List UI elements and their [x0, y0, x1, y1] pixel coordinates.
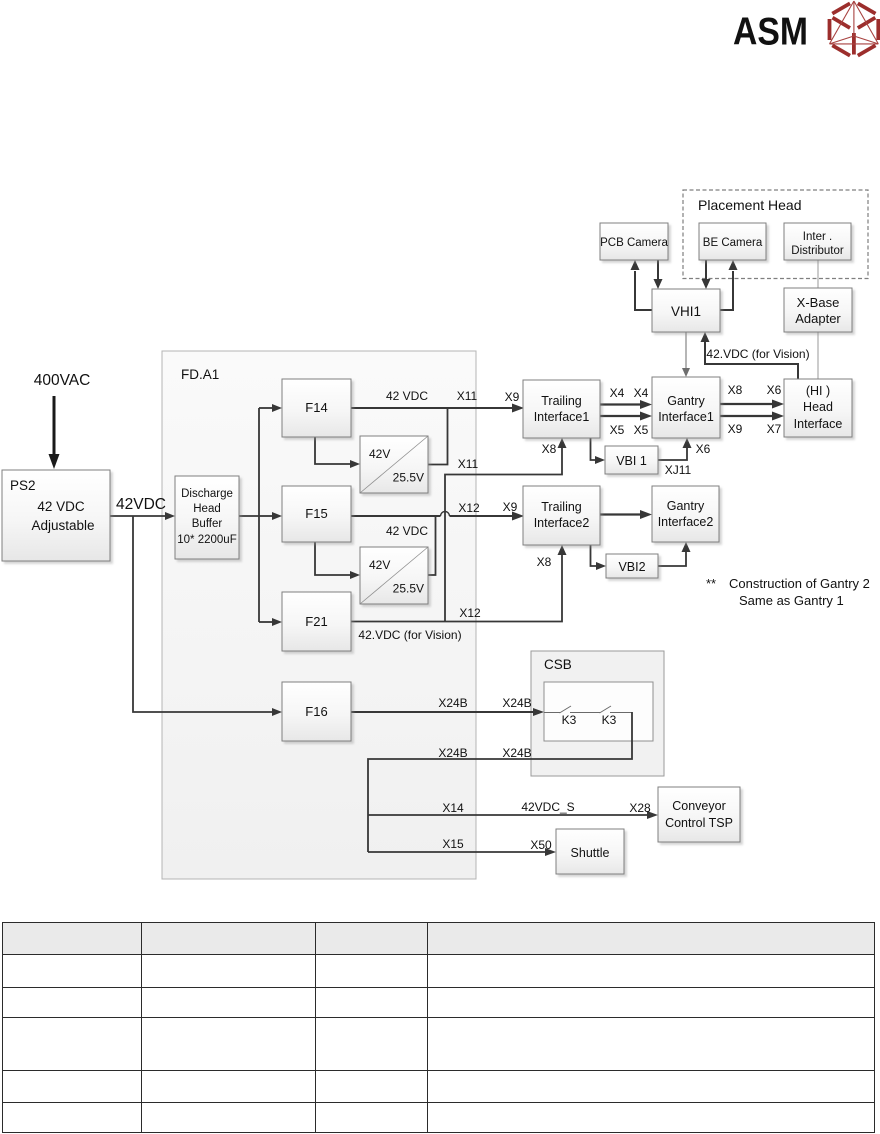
svg-text:25.5V: 25.5V [393, 582, 424, 596]
svg-text:XJ11: XJ11 [665, 463, 692, 477]
block fuse F15 [282, 486, 351, 542]
svg-text:42 VDC: 42 VDC [386, 524, 428, 538]
wire VHI1 to PCB Camera (up) [631, 260, 653, 310]
svg-text:X28: X28 [629, 801, 651, 815]
svg-text:X4: X4 [610, 386, 625, 400]
svg-text:X4: X4 [634, 386, 649, 400]
block BE Camera [699, 223, 766, 260]
svg-text:X6: X6 [767, 383, 782, 397]
label X8 into Trailing1 bottom [542, 442, 557, 456]
svg-text:Distributor: Distributor [791, 245, 844, 257]
label X5 pair [610, 423, 649, 437]
label K3 first relay [562, 713, 577, 727]
block Trailing Interface1 [523, 380, 600, 438]
svg-text:Interface2: Interface2 [658, 515, 714, 529]
wire X15 to Shuttle X50 [368, 848, 556, 856]
svg-text:X7: X7 [767, 422, 782, 436]
wire X14 42VDC_S to Conveyor Control TSP [368, 811, 658, 819]
label X24B on return right [502, 746, 531, 760]
labels layer [34, 347, 870, 852]
svg-text:ASM: ASM [733, 9, 808, 53]
svg-text:X11: X11 [458, 457, 479, 471]
svg-text:X6: X6 [696, 442, 711, 456]
ASM logo hexagon [830, 1, 879, 56]
wire spine to F21 [259, 618, 282, 626]
wire buffer to fuse spine [239, 408, 259, 622]
wire Inter. Distributor to X-Base Adapter (thin) [817, 260, 819, 288]
svg-text:Trailing: Trailing [541, 394, 582, 408]
svg-text:X8: X8 [537, 555, 552, 569]
label 42VDC at PS2 output [116, 496, 166, 513]
svg-text:Construction of Gantry 2: Construction of Gantry 2 [729, 576, 870, 591]
wire VHI1 to BE Camera (up) [720, 260, 738, 310]
block Inter. Distributor [784, 223, 851, 260]
label X6 into Gantry1 bottom [696, 442, 711, 456]
svg-text:X24B: X24B [438, 696, 467, 710]
wire F14 42VDC output to Trailing Interface1 X9 [351, 404, 524, 413]
svg-text:Placement Head: Placement Head [698, 197, 802, 213]
svg-text:K3: K3 [562, 713, 577, 727]
svg-text:X12: X12 [459, 606, 481, 620]
wire Trailing1 to Gantry1 X5 [600, 412, 652, 421]
wire converter1 output tie to 42VDC line [428, 408, 448, 465]
svg-text:Head: Head [803, 400, 833, 414]
boxes layer [2, 223, 852, 874]
label K3 second relay [602, 713, 617, 727]
wire CSB return X24B loop to X14/X15 feed [368, 712, 632, 852]
svg-text:F21: F21 [305, 614, 327, 629]
wire VBI 1 to Gantry1 X6 via XJ11 [658, 438, 692, 460]
label X6 into Head Interface [767, 383, 782, 397]
block DC converter 42V/25.5V no.1 [360, 436, 428, 493]
svg-text:X24B: X24B [502, 746, 531, 760]
wire 42.VDC for Vision from Head Interface to VHI1 [701, 332, 799, 379]
wire 400VAC drop into PS2 [49, 396, 60, 469]
wires layer [49, 260, 819, 856]
FD.A1 enclosure [162, 351, 476, 879]
svg-text:X15: X15 [442, 837, 464, 851]
svg-text:VBI2: VBI2 [618, 560, 645, 574]
svg-text:42V: 42V [369, 558, 390, 572]
svg-text:X8: X8 [728, 383, 743, 397]
wire Gantry1 to Head Interface X9-X7 [720, 412, 784, 421]
block (HI) Head Interface [784, 379, 852, 437]
label X4 pair [610, 386, 649, 400]
wire K3 relay contact line [544, 706, 632, 713]
svg-text:Interface: Interface [794, 417, 843, 431]
svg-text:X9: X9 [505, 390, 520, 404]
block Trailing Interface2 [523, 486, 600, 545]
svg-text:X8: X8 [542, 442, 557, 456]
svg-text:42 VDC: 42 VDC [37, 499, 85, 514]
label X28 [629, 801, 651, 815]
svg-text:F14: F14 [305, 400, 327, 415]
label X24B on return left [438, 746, 467, 760]
CSB enclosure [531, 651, 664, 776]
label X14 [442, 801, 464, 815]
svg-text:Interface1: Interface1 [534, 410, 590, 424]
wire VBI2 to Gantry2 [658, 542, 691, 566]
wire F14 to converter1 input [315, 437, 360, 468]
note Construction of Gantry 2 [706, 576, 870, 608]
block DC converter 42V/25.5V no.2 [360, 547, 428, 604]
label X12 on F21 output [459, 606, 481, 620]
block Discharge Head Buffer [175, 476, 239, 559]
svg-text:Shuttle: Shuttle [571, 846, 610, 860]
svg-text:PS2: PS2 [10, 478, 36, 493]
svg-text:X50: X50 [530, 838, 552, 852]
label 42.VDC (for Vision) under F21 line [358, 628, 461, 642]
svg-text:42VDC: 42VDC [116, 496, 166, 513]
svg-text:BE Camera: BE Camera [703, 237, 763, 249]
label 42VDC_S [521, 800, 574, 814]
wire spine to F14 [259, 404, 282, 412]
label X12 on F15 output [458, 501, 480, 515]
svg-text:42V: 42V [369, 447, 390, 461]
svg-text:K3: K3 [602, 713, 617, 727]
svg-text:Adapter: Adapter [795, 311, 841, 326]
block VBI 1 [605, 446, 658, 474]
wire Trailing2 to VBI2 [591, 545, 607, 570]
bottom table [2, 922, 875, 1133]
svg-text:FD.A1: FD.A1 [181, 367, 219, 382]
svg-text:Inter .: Inter . [803, 231, 832, 243]
block PCB Camera [600, 223, 668, 260]
wire BE Camera to VHI1 (down) [702, 260, 711, 289]
svg-text:X9: X9 [503, 500, 518, 514]
svg-text:VHI1: VHI1 [671, 304, 701, 319]
svg-text:Conveyor: Conveyor [672, 799, 726, 813]
svg-text:25.5V: 25.5V [393, 471, 424, 485]
label XJ11 [665, 463, 692, 477]
block PS2 [2, 470, 110, 561]
block Gantry Interface1 [652, 377, 720, 438]
label X24B on F16 output left [438, 696, 467, 710]
block VHI1 [652, 289, 720, 332]
block fuse F21 [282, 592, 351, 651]
label X9 into Trailing1 [505, 390, 520, 404]
svg-text:42.VDC (for Vision): 42.VDC (for Vision) [358, 628, 461, 642]
svg-text:X5: X5 [634, 423, 649, 437]
svg-text:(HI ): (HI ) [806, 384, 830, 398]
ASM logo text [733, 9, 808, 53]
svg-text:42VDC_S: 42VDC_S [521, 800, 574, 814]
CSB inner relay box [544, 682, 653, 741]
label X24B on F16 output right [502, 696, 531, 710]
svg-text:X5: X5 [610, 423, 625, 437]
block VBI2 [606, 554, 658, 578]
label X9 Gantry1 out [728, 422, 743, 436]
wire Trailing2 to Gantry2 [600, 510, 652, 519]
label X50 [530, 838, 552, 852]
svg-text:PCB Camera: PCB Camera [600, 237, 668, 249]
svg-text:Same as Gantry 1: Same as Gantry 1 [739, 593, 844, 608]
svg-text:CSB: CSB [544, 657, 572, 672]
wire VHI1 down to Gantry1 (thin) [682, 332, 690, 377]
wire F21 42VDC (for Vision) output to Trailing Interface2 X8 [351, 545, 567, 622]
label X11 on vision line [458, 457, 479, 471]
wire F21 riser X11 to Trailing Interface1 X8 [445, 438, 567, 622]
block fuse F16 [282, 682, 351, 741]
svg-text:400VAC: 400VAC [34, 372, 91, 389]
svg-text:X12: X12 [458, 501, 480, 515]
svg-text:42 VDC: 42 VDC [386, 389, 428, 403]
svg-text:Interface2: Interface2 [534, 516, 590, 530]
svg-text:F16: F16 [305, 704, 327, 719]
block Gantry Interface2 [652, 486, 719, 542]
svg-text:Interface1: Interface1 [658, 410, 714, 424]
svg-text:X11: X11 [457, 389, 478, 403]
svg-text:**: ** [706, 576, 716, 591]
wire F16 X24B output into CSB [351, 708, 544, 716]
svg-text:X-Base: X-Base [797, 295, 840, 310]
svg-text:X24B: X24B [438, 746, 467, 760]
label 42.VDC (for Vision) at VHI1 [706, 347, 809, 361]
label X15 [442, 837, 464, 851]
svg-text:VBI 1: VBI 1 [616, 454, 647, 468]
wire Trailing1 to VBI 1 [591, 438, 606, 464]
svg-text:Head: Head [193, 503, 221, 515]
svg-text:Buffer: Buffer [192, 518, 223, 530]
label X8 Gantry1 out [728, 383, 743, 397]
wire 42VDC branch down to F16 [133, 516, 282, 716]
wire PS2 to Discharge Head Buffer [110, 512, 175, 520]
Placement Head dashed enclosure [683, 190, 868, 279]
label X8 into Trailing2 bottom [537, 555, 552, 569]
label X11 on F14 output [457, 389, 478, 403]
svg-text:F15: F15 [305, 506, 327, 521]
wire Trailing1 to Gantry1 X4 [600, 400, 652, 409]
svg-text:10* 2200uF: 10* 2200uF [177, 534, 236, 546]
wire Gantry1 to Head Interface X8-X6 [720, 400, 784, 409]
label 42 VDC on F14 output [386, 389, 428, 403]
svg-text:Trailing: Trailing [541, 500, 582, 514]
svg-text:X9: X9 [728, 422, 743, 436]
block X-Base Adapter [784, 288, 852, 332]
wire X-Base Adapter to Head Interface (thin) [817, 332, 819, 379]
wire PCB Camera to VHI1 (down) [654, 260, 663, 289]
block Shuttle [556, 829, 624, 874]
svg-text:Gantry: Gantry [667, 394, 705, 408]
label 400VAC [34, 372, 91, 389]
svg-text:Discharge: Discharge [181, 488, 233, 500]
label 42 VDC on F15 output [386, 524, 428, 538]
svg-text:X24B: X24B [502, 696, 531, 710]
svg-text:42.VDC (for Vision): 42.VDC (for Vision) [706, 347, 809, 361]
block Conveyor Control TSP [658, 787, 740, 842]
wire spine to F15 [259, 512, 282, 520]
block fuse F14 [282, 379, 351, 437]
svg-text:X14: X14 [442, 801, 464, 815]
label X9 into Trailing2 [503, 500, 518, 514]
wire converter2 output tie to F15 line [428, 516, 436, 575]
label X7 into Head Interface [767, 422, 782, 436]
svg-text:Control TSP: Control TSP [665, 816, 733, 830]
wire F15 to converter2 input [315, 542, 360, 579]
svg-text:Gantry: Gantry [667, 499, 705, 513]
wire F15 42VDC output to Trailing Interface2 X9 with hop [351, 512, 524, 521]
svg-text:Adjustable: Adjustable [31, 518, 94, 533]
